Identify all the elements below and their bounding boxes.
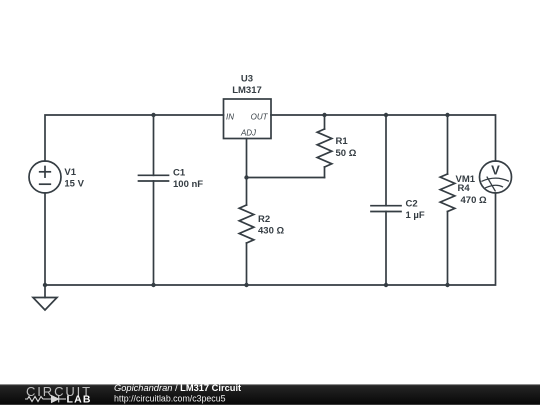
svg-text:15 V: 15 V bbox=[64, 178, 84, 189]
svg-text:LM317: LM317 bbox=[232, 85, 262, 96]
svg-text:R4: R4 bbox=[458, 183, 471, 194]
node junction top R4 bbox=[445, 113, 449, 117]
wire top rail left (V1 to LM317 IN) bbox=[45, 115, 224, 161]
wire R1 top lead bbox=[324, 115, 326, 129]
resistor R1 bbox=[317, 129, 332, 167]
svg-text:http://circuitlab.com/c3pecu5: http://circuitlab.com/c3pecu5 bbox=[114, 394, 226, 404]
svg-text:U3: U3 bbox=[241, 74, 253, 85]
svg-text:R2: R2 bbox=[258, 214, 270, 225]
footer bar bbox=[0, 384, 540, 405]
wire left vertical V1 bottom to ground rail bbox=[44, 193, 46, 285]
wire C1 branch top bbox=[153, 115, 155, 175]
svg-text:470 Ω: 470 Ω bbox=[461, 195, 487, 206]
node junction top R1 bbox=[322, 113, 326, 117]
wire top rail right (LM317 OUT to voltmeter branch) bbox=[271, 115, 496, 161]
wire R1 bottom lead bbox=[324, 167, 326, 178]
node junction bottom C1 bbox=[151, 283, 155, 287]
wire C2 branch bottom bbox=[385, 212, 387, 286]
svg-text:100 nF: 100 nF bbox=[173, 179, 203, 190]
resistor R2 bbox=[239, 205, 254, 243]
voltmeter VM1 bbox=[480, 161, 512, 193]
capacitor C1 bbox=[139, 174, 169, 176]
svg-text:50 Ω: 50 Ω bbox=[336, 148, 357, 159]
svg-text:OUT: OUT bbox=[251, 112, 269, 121]
node junction bottom R4 bbox=[445, 283, 449, 287]
node junction ground left bbox=[43, 283, 47, 287]
svg-text:Gopichandran / LM317 Circuit: Gopichandran / LM317 Circuit bbox=[114, 383, 241, 393]
svg-text:V1: V1 bbox=[64, 167, 76, 178]
ground bbox=[44, 285, 46, 298]
node junction ADJ bbox=[244, 175, 248, 179]
wire C2 branch top bbox=[385, 115, 387, 206]
svg-text:1 µF: 1 µF bbox=[406, 210, 425, 221]
node junction top C1 bbox=[151, 113, 155, 117]
svg-text:430 Ω: 430 Ω bbox=[258, 225, 284, 236]
resistor R4 bbox=[440, 174, 455, 212]
svg-text:ADJ: ADJ bbox=[240, 128, 257, 137]
wire R4 bottom lead bbox=[447, 212, 449, 286]
svg-text:V: V bbox=[491, 163, 500, 178]
node junction top C2 bbox=[384, 113, 388, 117]
capacitor C2 bbox=[371, 205, 401, 207]
wire R4 top lead bbox=[447, 115, 449, 174]
wire R2 top lead bbox=[246, 178, 248, 206]
op-amp U3 LM317 box bbox=[224, 99, 272, 139]
svg-text:R1: R1 bbox=[336, 136, 349, 147]
wire R2 bottom lead bbox=[246, 243, 248, 285]
wire C1 branch bottom bbox=[153, 181, 155, 285]
svg-text:IN: IN bbox=[226, 112, 234, 121]
voltage source V1 bbox=[29, 161, 61, 193]
wire ADJ pin stub bbox=[246, 139, 248, 178]
CircuitLab logo glyph resistor and diode bbox=[25, 396, 66, 403]
node junction bottom C2 bbox=[384, 283, 388, 287]
svg-text:C2: C2 bbox=[406, 198, 418, 209]
node junction bottom R2 bbox=[244, 283, 248, 287]
svg-text:LAB: LAB bbox=[67, 393, 92, 405]
wire ADJ node to R1 bottom bbox=[247, 177, 325, 179]
svg-text:C1: C1 bbox=[173, 168, 186, 179]
wire bottom ground rail bbox=[45, 193, 496, 285]
